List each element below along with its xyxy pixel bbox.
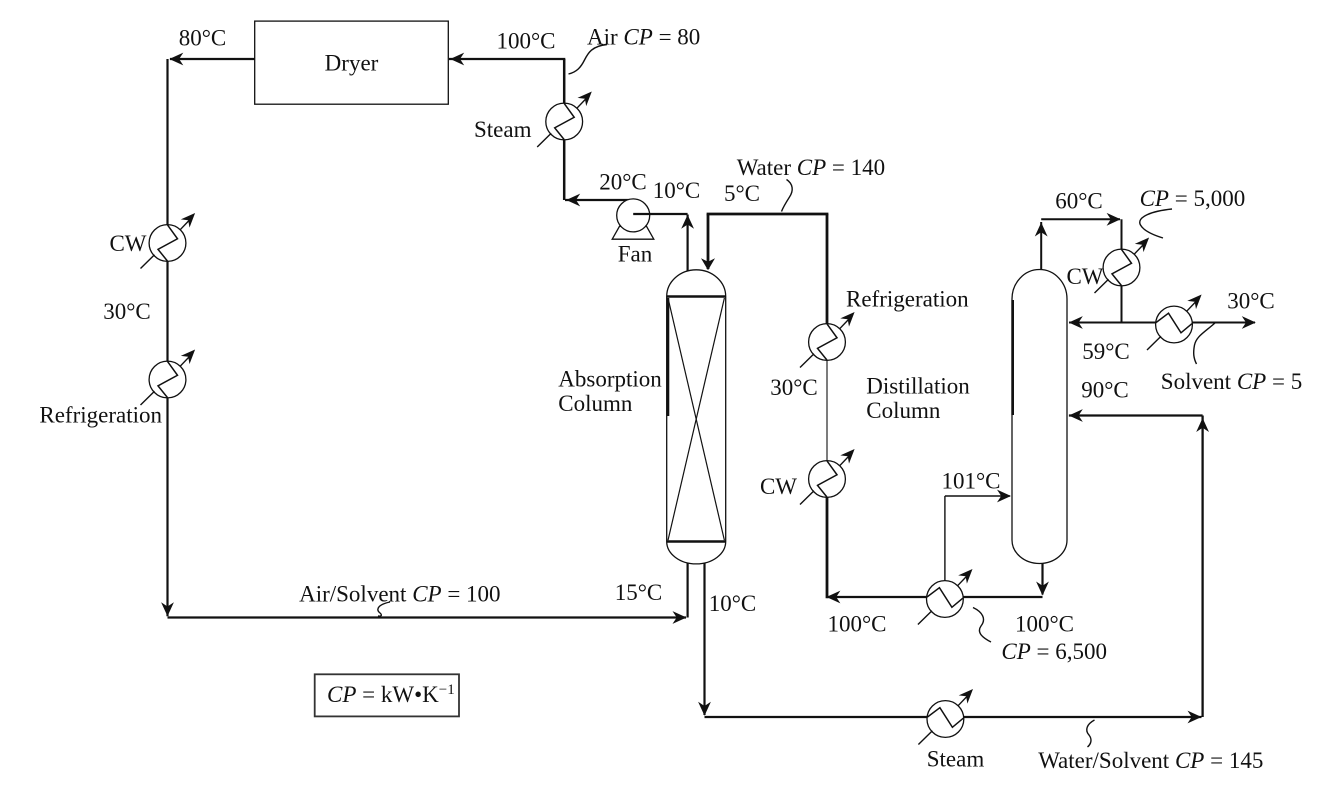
heat exchanger: steam heater (bottom) U9 (918, 689, 973, 745)
wire: bottom air/solvent line to absorption column (168, 611, 687, 624)
svg-text:Water/Solvent CP = 145: Water/Solvent CP = 145 (1038, 748, 1263, 773)
wire: condenser downcomer through CW exchanger (1121, 219, 1123, 322)
leader squiggle: CP=6,500 (973, 608, 991, 643)
svg-text:100°C: 100°C (496, 29, 555, 54)
svg-text:Steam: Steam (474, 117, 532, 142)
svg-text:90°C: 90°C (1081, 378, 1129, 403)
wire: thick water line from 5C corner down to refrigeration cooler (826, 214, 829, 325)
svg-text:Water CP = 140: Water CP = 140 (737, 155, 885, 180)
wire: 90C feed line into distillation column (1069, 409, 1203, 422)
heat exchanger: solvent product cooler U7 (1147, 295, 1202, 351)
absorption column vessel (667, 270, 726, 564)
wire: 20C fan outlet to steam heater riser (565, 194, 633, 207)
leader squiggle: CP=5,000 (1140, 209, 1172, 238)
heat exchanger: steam air heater U1 (537, 92, 592, 148)
leader squiggle: Solvent CP=5 (1194, 323, 1216, 365)
svg-text:Fan: Fan (618, 242, 653, 267)
svg-text:Air/Solvent CP = 100: Air/Solvent CP = 100 (299, 582, 500, 607)
svg-text:Air CP = 80: Air CP = 80 (587, 25, 700, 50)
heat exchanger: refrigeration water cooler U4 (800, 312, 855, 368)
svg-text:100°C: 100°C (1015, 612, 1074, 637)
heat exchanger: refrigeration cooler (left) U3 (141, 350, 196, 406)
wire: bottom water/solvent line through steam heater (705, 711, 1202, 724)
svg-text:CW: CW (760, 474, 797, 499)
svg-text:20°C: 20°C (599, 170, 647, 195)
svg-text:30°C: 30°C (1227, 289, 1275, 314)
leader squiggle: Air CP=80 (569, 45, 608, 75)
svg-text:59°C: 59°C (1082, 339, 1130, 364)
wire: 10C bottoms downcomer from absorption column (698, 560, 711, 716)
wire: absorption column bottom-left inlet stub (686, 560, 688, 618)
svg-text:10°C: 10°C (709, 591, 757, 616)
svg-text:Column: Column (558, 391, 633, 416)
wire: 101C reboiler return riser (944, 496, 946, 582)
svg-text:10°C: 10°C (653, 178, 701, 203)
wire: 100C air into dryer (449, 53, 565, 66)
wire: 100C distillation bottoms line (to water coolers) (826, 591, 1042, 604)
wire: 59C reflux / 30C solvent product line (1069, 316, 1256, 329)
svg-text:60°C: 60°C (1055, 189, 1103, 214)
wire: vertical line through steam heater up to dryer level (563, 59, 566, 200)
svg-text:CP = 6,500: CP = 6,500 (1001, 639, 1107, 664)
dryer unit (255, 21, 449, 104)
leader squiggle: Air/Solvent CP=100 (378, 602, 390, 616)
svg-text:5°C: 5°C (724, 181, 760, 206)
svg-text:Distillation: Distillation (866, 374, 970, 399)
svg-text:CP = kW•K−1: CP = kW•K−1 (327, 682, 455, 707)
wire: left vertical air/solvent line through CW and Refrigeration (161, 59, 174, 616)
heat exchanger: CW condenser U6 (1095, 238, 1150, 294)
leader squiggle: Water/Solvent CP=145 (1087, 720, 1095, 747)
CP units legend box (315, 674, 459, 716)
wire: right vertical water/solvent recycle riser (1196, 416, 1209, 718)
svg-text:CW: CW (1066, 264, 1103, 289)
svg-text:Steam: Steam (927, 747, 985, 772)
heat exchanger: CW water cooler U5 (800, 449, 855, 505)
svg-text:Dryer: Dryer (325, 51, 379, 76)
heat exchanger: CW cooler (left) U2 (141, 213, 196, 269)
svg-text:100°C: 100°C (827, 612, 886, 637)
wire: distillation column bottoms downcomer (1036, 560, 1049, 596)
wire: 5C water horizontal header (707, 213, 829, 216)
wire: 101C reboiler return into column (945, 490, 1011, 503)
svg-text:Solvent CP = 5: Solvent CP = 5 (1161, 369, 1302, 394)
fan (612, 199, 654, 239)
svg-text:15°C: 15°C (615, 580, 663, 605)
svg-text:Refrigeration: Refrigeration (39, 403, 162, 428)
svg-text:80°C: 80°C (179, 26, 227, 51)
svg-text:CP = 5,000: CP = 5,000 (1140, 186, 1246, 211)
svg-text:30°C: 30°C (770, 375, 818, 400)
wire: fan inlet from absorption column riser (633, 213, 687, 215)
wire: 60C overhead line to condenser (1041, 213, 1120, 226)
wire: thin water line between refrigeration cooler and CW cooler (826, 360, 828, 462)
distillation column vessel (1012, 270, 1067, 564)
svg-text:Column: Column (866, 398, 941, 423)
leader squiggle: Water CP=140 (782, 180, 793, 212)
wire: 80C air from dryer to left header (169, 53, 255, 66)
svg-text:Absorption: Absorption (558, 367, 662, 392)
svg-text:CW: CW (109, 231, 146, 256)
svg-text:101°C: 101°C (941, 469, 1000, 494)
heat exchanger: feed/bottoms interchanger CP=6500 U8 (918, 569, 973, 625)
wire: 60C overhead vapour riser (1035, 222, 1048, 271)
wire: thick water line from CW cooler down to 100C corner (826, 497, 829, 599)
svg-text:30°C: 30°C (103, 299, 151, 324)
svg-text:Refrigeration: Refrigeration (846, 287, 969, 312)
wire: 10C riser from absorption column top (681, 215, 694, 272)
wire: 5C water inlet down into absorption column (701, 214, 715, 270)
